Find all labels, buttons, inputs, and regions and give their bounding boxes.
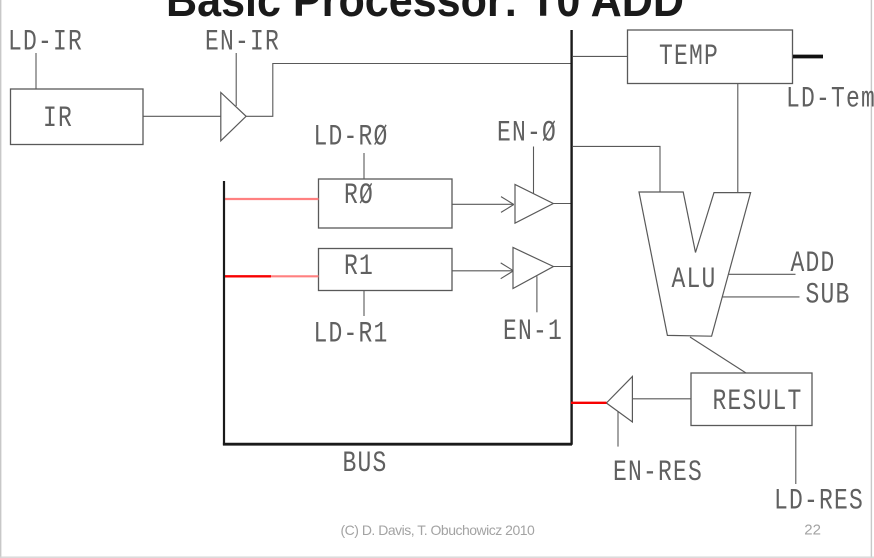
wire R1 output with arrowhead [452, 263, 514, 279]
tri-state buffer EN-1 [513, 248, 553, 289]
svg-text:EN-Ø: EN-Ø [497, 116, 557, 149]
register TEMP [628, 30, 793, 84]
register R0 [319, 178, 453, 228]
svg-text:TEMP: TEMP [659, 39, 719, 72]
svg-text:R1: R1 [344, 249, 374, 282]
wire buffer EN-1 to bus [553, 266, 571, 268]
bus left segment [223, 181, 225, 445]
svg-text:RESULT: RESULT [713, 384, 803, 417]
svg-text:LD-RØ: LD-RØ [314, 120, 389, 153]
wire ALU output to RESULT [690, 337, 746, 373]
wire TEMP output (thick) [793, 55, 823, 59]
svg-text:EN-IR: EN-IR [205, 25, 280, 58]
svg-text:ADD: ADD [791, 246, 836, 279]
svg-text:22: 22 [804, 522, 821, 539]
svg-text:(C) D. Davis, T. Obuchowicz 20: (C) D. Davis, T. Obuchowicz 2010 [341, 522, 536, 538]
wire RESULT to buffer EN-RES [633, 398, 692, 400]
wire ALU ADD control [729, 273, 796, 275]
svg-text:LD-Temp: LD-Temp [786, 82, 874, 115]
op-amp ALU [639, 192, 751, 336]
svg-text:SUB: SUB [806, 278, 851, 311]
wire buffer EN-RES to bus (bright red) [571, 402, 607, 404]
wire LD-IR stem [35, 53, 37, 89]
svg-text:Basic Processor: T0 ADD: Basic Processor: T0 ADD [166, 0, 684, 26]
tri-state buffer EN-RES [606, 377, 632, 423]
svg-text:ALU: ALU [672, 262, 717, 295]
wire to R1 (light red) [271, 275, 319, 277]
bus right segment [570, 30, 572, 445]
svg-text:LD-RES: LD-RES [774, 484, 864, 517]
slide right border [870, 0, 872, 558]
wire bus to TEMP [573, 55, 628, 57]
svg-text:EN-1: EN-1 [503, 314, 563, 347]
wire TEMP to ALU right input [737, 84, 739, 193]
wire LD-R1 stem [363, 291, 365, 317]
register R1 [319, 249, 453, 291]
wire LD-RES stem [795, 426, 797, 485]
svg-text:BUS: BUS [343, 446, 388, 479]
tri-state buffer EN-0 [515, 185, 553, 224]
slide left border [0, 0, 2, 558]
svg-text:EN-RES: EN-RES [613, 455, 703, 488]
wire EN-RES stem [617, 412, 619, 447]
register RESULT [691, 373, 812, 426]
wire LD-R0 stem [363, 153, 365, 179]
wire bus to ALU left input [573, 146, 660, 192]
wire IR output to buffer [143, 115, 221, 117]
svg-text:RØ: RØ [344, 178, 374, 211]
svg-text:IR: IR [43, 101, 73, 134]
wire R0 output with arrowhead [452, 197, 514, 213]
bus bottom segment [223, 443, 572, 446]
wire ALU SUB control [723, 296, 800, 298]
wire EN-0 stem [533, 147, 535, 195]
wire buffer EN-IR to bus [246, 64, 571, 117]
svg-text:LD-R1: LD-R1 [314, 317, 389, 350]
wire EN-1 stem [536, 276, 538, 312]
wire bus to R1 (bright red) [225, 275, 272, 277]
svg-text:LD-IR: LD-IR [8, 25, 83, 58]
wire EN-IR stem [235, 53, 237, 106]
slide bottom edge [0, 556, 874, 558]
tri-state buffer EN-IR [221, 93, 246, 141]
wire buffer EN-0 to bus [553, 203, 571, 205]
wire bus to R0 (light red) [225, 198, 319, 200]
register IR [11, 89, 144, 145]
